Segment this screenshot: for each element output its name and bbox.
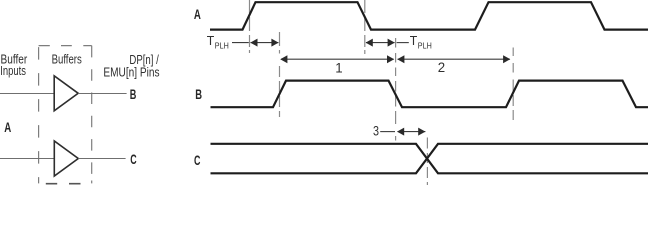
guide dashed line at B rising edge — [279, 32, 281, 117]
wire output C — [78, 158, 125, 160]
svg-text:C: C — [194, 152, 200, 168]
dimension T_PLH (fall) leader line — [397, 42, 409, 44]
svg-text:3: 3 — [373, 123, 379, 138]
dashed box Buffers bottom edge — [46, 183, 81, 185]
dashed box Buffers left edge — [38, 47, 40, 183]
dimension T_PLH (rise) leader line — [232, 42, 249, 44]
svg-text:1: 1 — [335, 60, 342, 75]
svg-text:2: 2 — [438, 60, 445, 75]
dimension T_PLH (rise) double arrow — [251, 42, 279, 44]
wire input to buffer U1 — [0, 93, 54, 95]
dashed box Buffers right edge — [91, 46, 93, 184]
dimension T_PLH (fall) double arrow — [366, 42, 395, 44]
svg-text:B: B — [195, 86, 202, 102]
dimension 3 double arrow — [398, 131, 426, 133]
guide dashed line at C crossover — [426, 138, 428, 186]
svg-text:PLH: PLH — [215, 42, 229, 51]
svg-text:T: T — [207, 33, 215, 48]
guide dashed line at B falling edge — [395, 38, 397, 141]
waveform C bus upper line — [211, 144, 648, 174]
dimension 2 arrow — [398, 58, 510, 60]
guide dashed line at B second rising edge — [512, 48, 514, 121]
svg-text:T: T — [410, 33, 418, 48]
waveform B — [211, 81, 648, 108]
buffer U2 (bottom triangle) — [54, 141, 78, 176]
buffer U1 (top triangle) — [54, 76, 78, 111]
wire input to buffer U2 — [0, 158, 54, 160]
guide dashed line at A rising edge — [249, 0, 251, 53]
wire output B — [78, 93, 126, 95]
waveform C bus lower line — [211, 144, 648, 174]
dimension 1 arrow — [281, 58, 394, 60]
svg-text:EMU[n] Pins: EMU[n] Pins — [103, 64, 160, 79]
waveform A — [210, 2, 648, 29]
guide dashed line at A falling edge — [364, 0, 366, 54]
svg-text:Inputs: Inputs — [0, 63, 26, 78]
svg-text:PLH: PLH — [418, 42, 432, 51]
dimension 3 leader line — [380, 131, 395, 133]
dashed box Buffers top edge — [39, 45, 92, 47]
svg-text:B: B — [130, 86, 137, 102]
svg-text:C: C — [130, 151, 136, 167]
svg-text:A: A — [194, 6, 201, 22]
svg-text:A: A — [4, 119, 11, 135]
svg-text:Buffers: Buffers — [52, 52, 83, 67]
